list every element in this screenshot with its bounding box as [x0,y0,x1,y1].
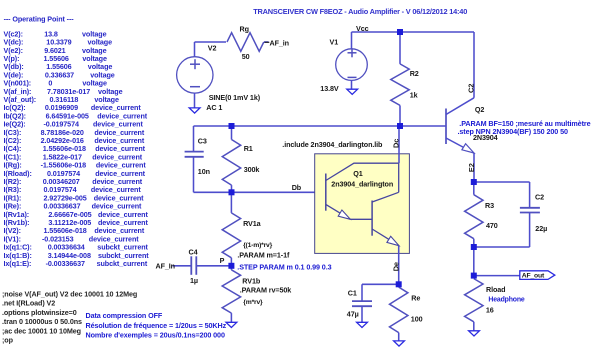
svg-text:.PARAM rv=50k: .PARAM rv=50k [240,286,292,295]
svg-text:.tran 0 10000us 0 50.0ns: .tran 0 10000us 0 50.0ns [2,317,82,326]
svg-text:AC 1: AC 1 [206,103,222,112]
svg-text:AF_in: AF_in [270,38,289,47]
svg-text:Rload: Rload [486,285,505,294]
svg-text:E2: E2 [467,163,476,172]
svg-text:;op: ;op [2,336,14,345]
svg-text:10n: 10n [198,167,210,176]
svg-text:C2: C2 [466,84,475,93]
svg-text:.include 2n3904_darlington.lib: .include 2n3904_darlington.lib [282,140,383,149]
svg-text:300k: 300k [244,165,260,174]
svg-text:.step NPN 2N3904(BF) 150 200 5: .step NPN 2N3904(BF) 150 200 50 [458,127,568,136]
svg-text:.net I(RLoad) V2: .net I(RLoad) V2 [2,299,55,308]
svg-text:2n3904_darlington: 2n3904_darlington [331,180,393,189]
svg-text:50: 50 [242,52,250,61]
svg-text:;ac dec 10001 10 10Meg: ;ac dec 10001 10 10Meg [2,326,81,335]
svg-text:TRANSCEIVER CW F8EOZ - Audio A: TRANSCEIVER CW F8EOZ - Audio Amplifier -… [253,7,467,16]
svg-text:Q2: Q2 [475,105,484,114]
svg-text:Résolution de fréquence = 1/20: Résolution de fréquence = 1/20us = 50KHz [86,321,227,330]
svg-text:C3: C3 [198,137,207,146]
svg-text:C4: C4 [189,248,198,257]
svg-text:100: 100 [411,314,423,323]
svg-text:Headphone: Headphone [488,297,524,304]
svg-text:Vcc: Vcc [356,24,369,33]
svg-text:Nombre d'exemples = 20us/0.1ns: Nombre d'exemples = 20us/0.1ns=200 000 [86,331,225,340]
svg-text:Data compression OFF: Data compression OFF [86,311,163,320]
svg-text:-0.00336637: -0.00336637 [46,259,85,268]
svg-text:.PARAM m=1-1f: .PARAM m=1-1f [237,251,290,260]
svg-text:1k: 1k [410,91,418,100]
svg-text:;noise V(AF_out) V2 dec 10001: ;noise V(AF_out) V2 dec 10001 10 12Meg [2,289,137,298]
svg-text:R3: R3 [485,201,494,210]
svg-text:470: 470 [486,221,498,230]
svg-text:V1: V1 [330,37,339,46]
svg-text:Db: Db [292,183,302,192]
svg-text:RV1b: RV1b [242,276,261,285]
svg-text:AF_In: AF_In [156,262,175,271]
svg-text:C1: C1 [348,289,357,298]
svg-text:subckt_current: subckt_current [97,259,148,268]
svg-text:Q1: Q1 [353,169,362,178]
svg-text:{m*rv}: {m*rv} [243,299,263,306]
svg-text:{(1-m)*rv}: {(1-m)*rv} [243,242,273,249]
svg-text:V2: V2 [208,44,217,53]
svg-text:R2: R2 [410,69,419,78]
svg-text:.options plotwinsize=0: .options plotwinsize=0 [2,308,77,317]
svg-text:.STEP PARAM m 0.1 0.99 0.3: .STEP PARAM m 0.1 0.99 0.3 [237,262,331,271]
svg-text:16: 16 [486,305,494,314]
svg-text:47µ: 47µ [347,309,359,318]
svg-text:R1: R1 [244,144,253,153]
svg-text:--- Operating Point ---: --- Operating Point --- [4,15,75,24]
svg-text:13.8V: 13.8V [320,84,339,93]
svg-text:RV1a: RV1a [243,219,262,228]
svg-text:C2: C2 [535,192,544,201]
svg-text:1µ: 1µ [190,276,198,285]
svg-text:P: P [220,256,225,265]
svg-text:Rg: Rg [240,25,249,34]
svg-text:SINE(0 1mV 1k): SINE(0 1mV 1k) [209,93,261,102]
svg-text:AF_out: AF_out [522,273,545,280]
svg-text:22µ: 22µ [535,224,547,233]
svg-text:Dc: Dc [392,139,401,148]
svg-text:Ix(q1:E):: Ix(q1:E): [4,259,32,268]
svg-text:De: De [392,262,401,271]
svg-text:Re: Re [411,293,420,302]
